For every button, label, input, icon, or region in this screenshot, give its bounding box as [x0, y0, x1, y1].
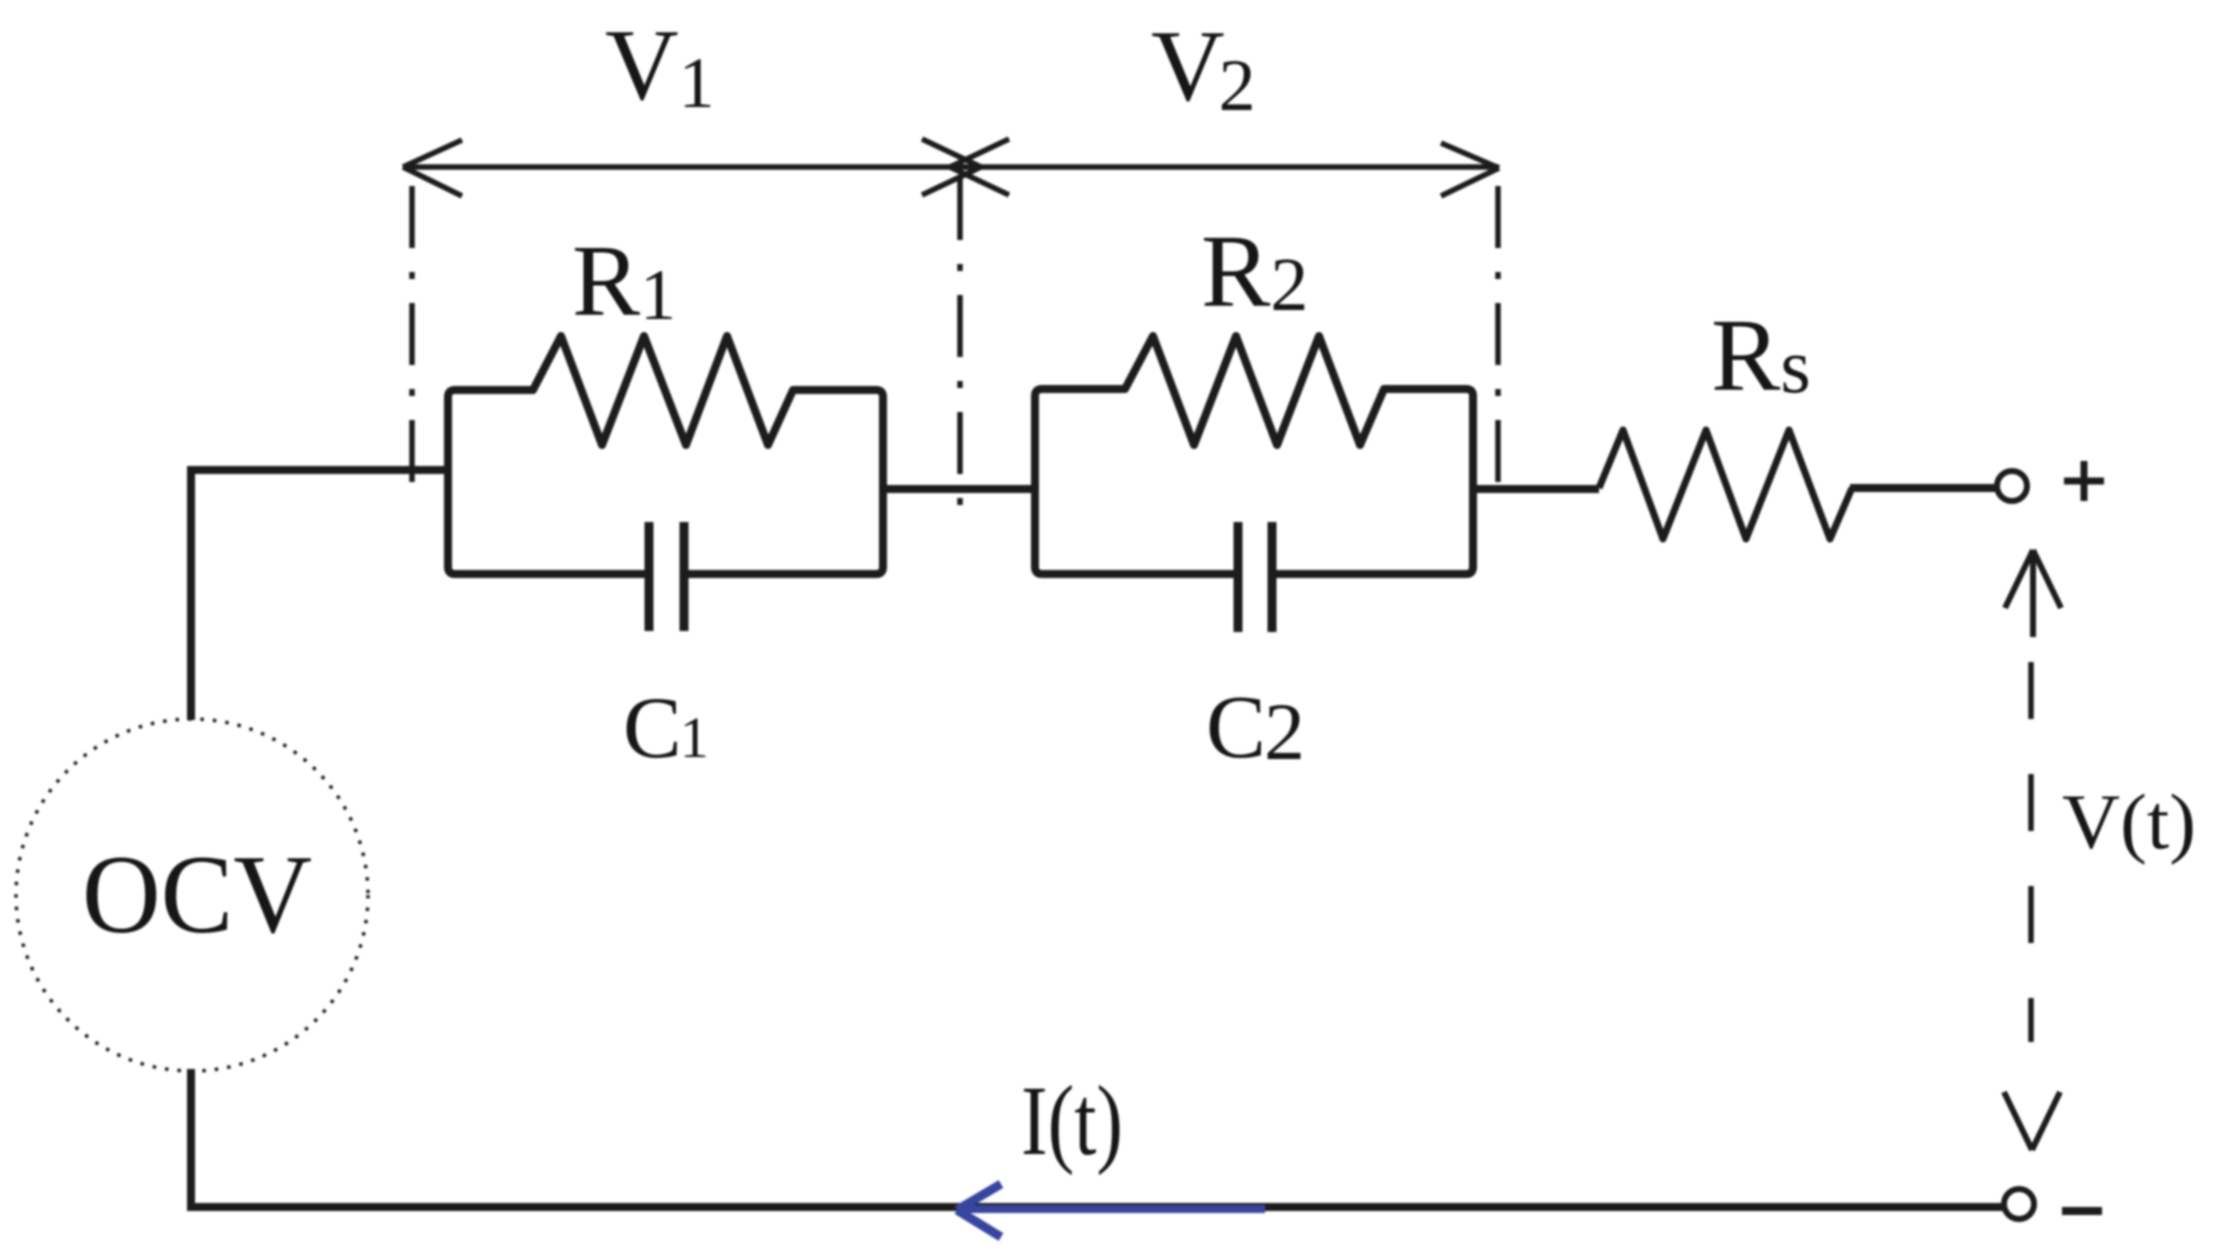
V(t) arrow bottom head [2004, 1092, 2060, 1150]
svg-text:V1: V1 [605, 9, 715, 123]
V(t) arrow top head [2005, 550, 2061, 637]
svg-text:R2: R2 [1201, 214, 1308, 329]
svg-text:OCV: OCV [82, 833, 312, 957]
wire RC pair 2 to Rs [1469, 485, 1599, 493]
resistor Rs zigzag [1599, 430, 1852, 539]
plus sign [2064, 461, 2104, 501]
dash-dot boundary line left (node A) [409, 186, 415, 505]
svg-text:I(t): I(t) [1021, 1065, 1123, 1176]
svg-text:Rs: Rs [1711, 298, 1811, 413]
svg-text:C2: C2 [1206, 678, 1305, 777]
RC pair 2 outline with resistor R2 [1035, 336, 1473, 574]
dash-dot boundary line middle (node B) [957, 178, 963, 507]
minus sign [2062, 1207, 2102, 1215]
wire Rs to positive terminal [1850, 484, 1998, 492]
capacitor C2 plates [1238, 522, 1272, 632]
svg-text:V(t): V(t) [2062, 778, 2196, 865]
wire between RC pair 1 and RC pair 2 [879, 485, 1039, 493]
dimension arrow V2 [950, 139, 1499, 196]
wire from OCV top to RC pair 1 [188, 466, 448, 474]
svg-text:R1: R1 [572, 225, 676, 338]
RC pair 1 outline with resistor R1 [448, 336, 883, 574]
V(t) dashed shaft [2028, 662, 2034, 1042]
capacitor C1 plates [649, 522, 684, 631]
wire bottom return [187, 1203, 2005, 1211]
dash-dot boundary line right (node C) [1495, 186, 1501, 503]
wire vertical OCV positive lead [187, 466, 195, 720]
positive terminal [1997, 471, 2027, 501]
dimension arrow V1 [403, 139, 981, 196]
svg-text:V2: V2 [1151, 10, 1256, 127]
wire vertical OCV negative lead [187, 1069, 195, 1207]
svg-text:C1: C1 [623, 680, 709, 777]
current I(t) blue arrow [957, 1184, 1265, 1237]
negative terminal [2004, 1189, 2034, 1219]
voltage source OCV [16, 719, 368, 1071]
